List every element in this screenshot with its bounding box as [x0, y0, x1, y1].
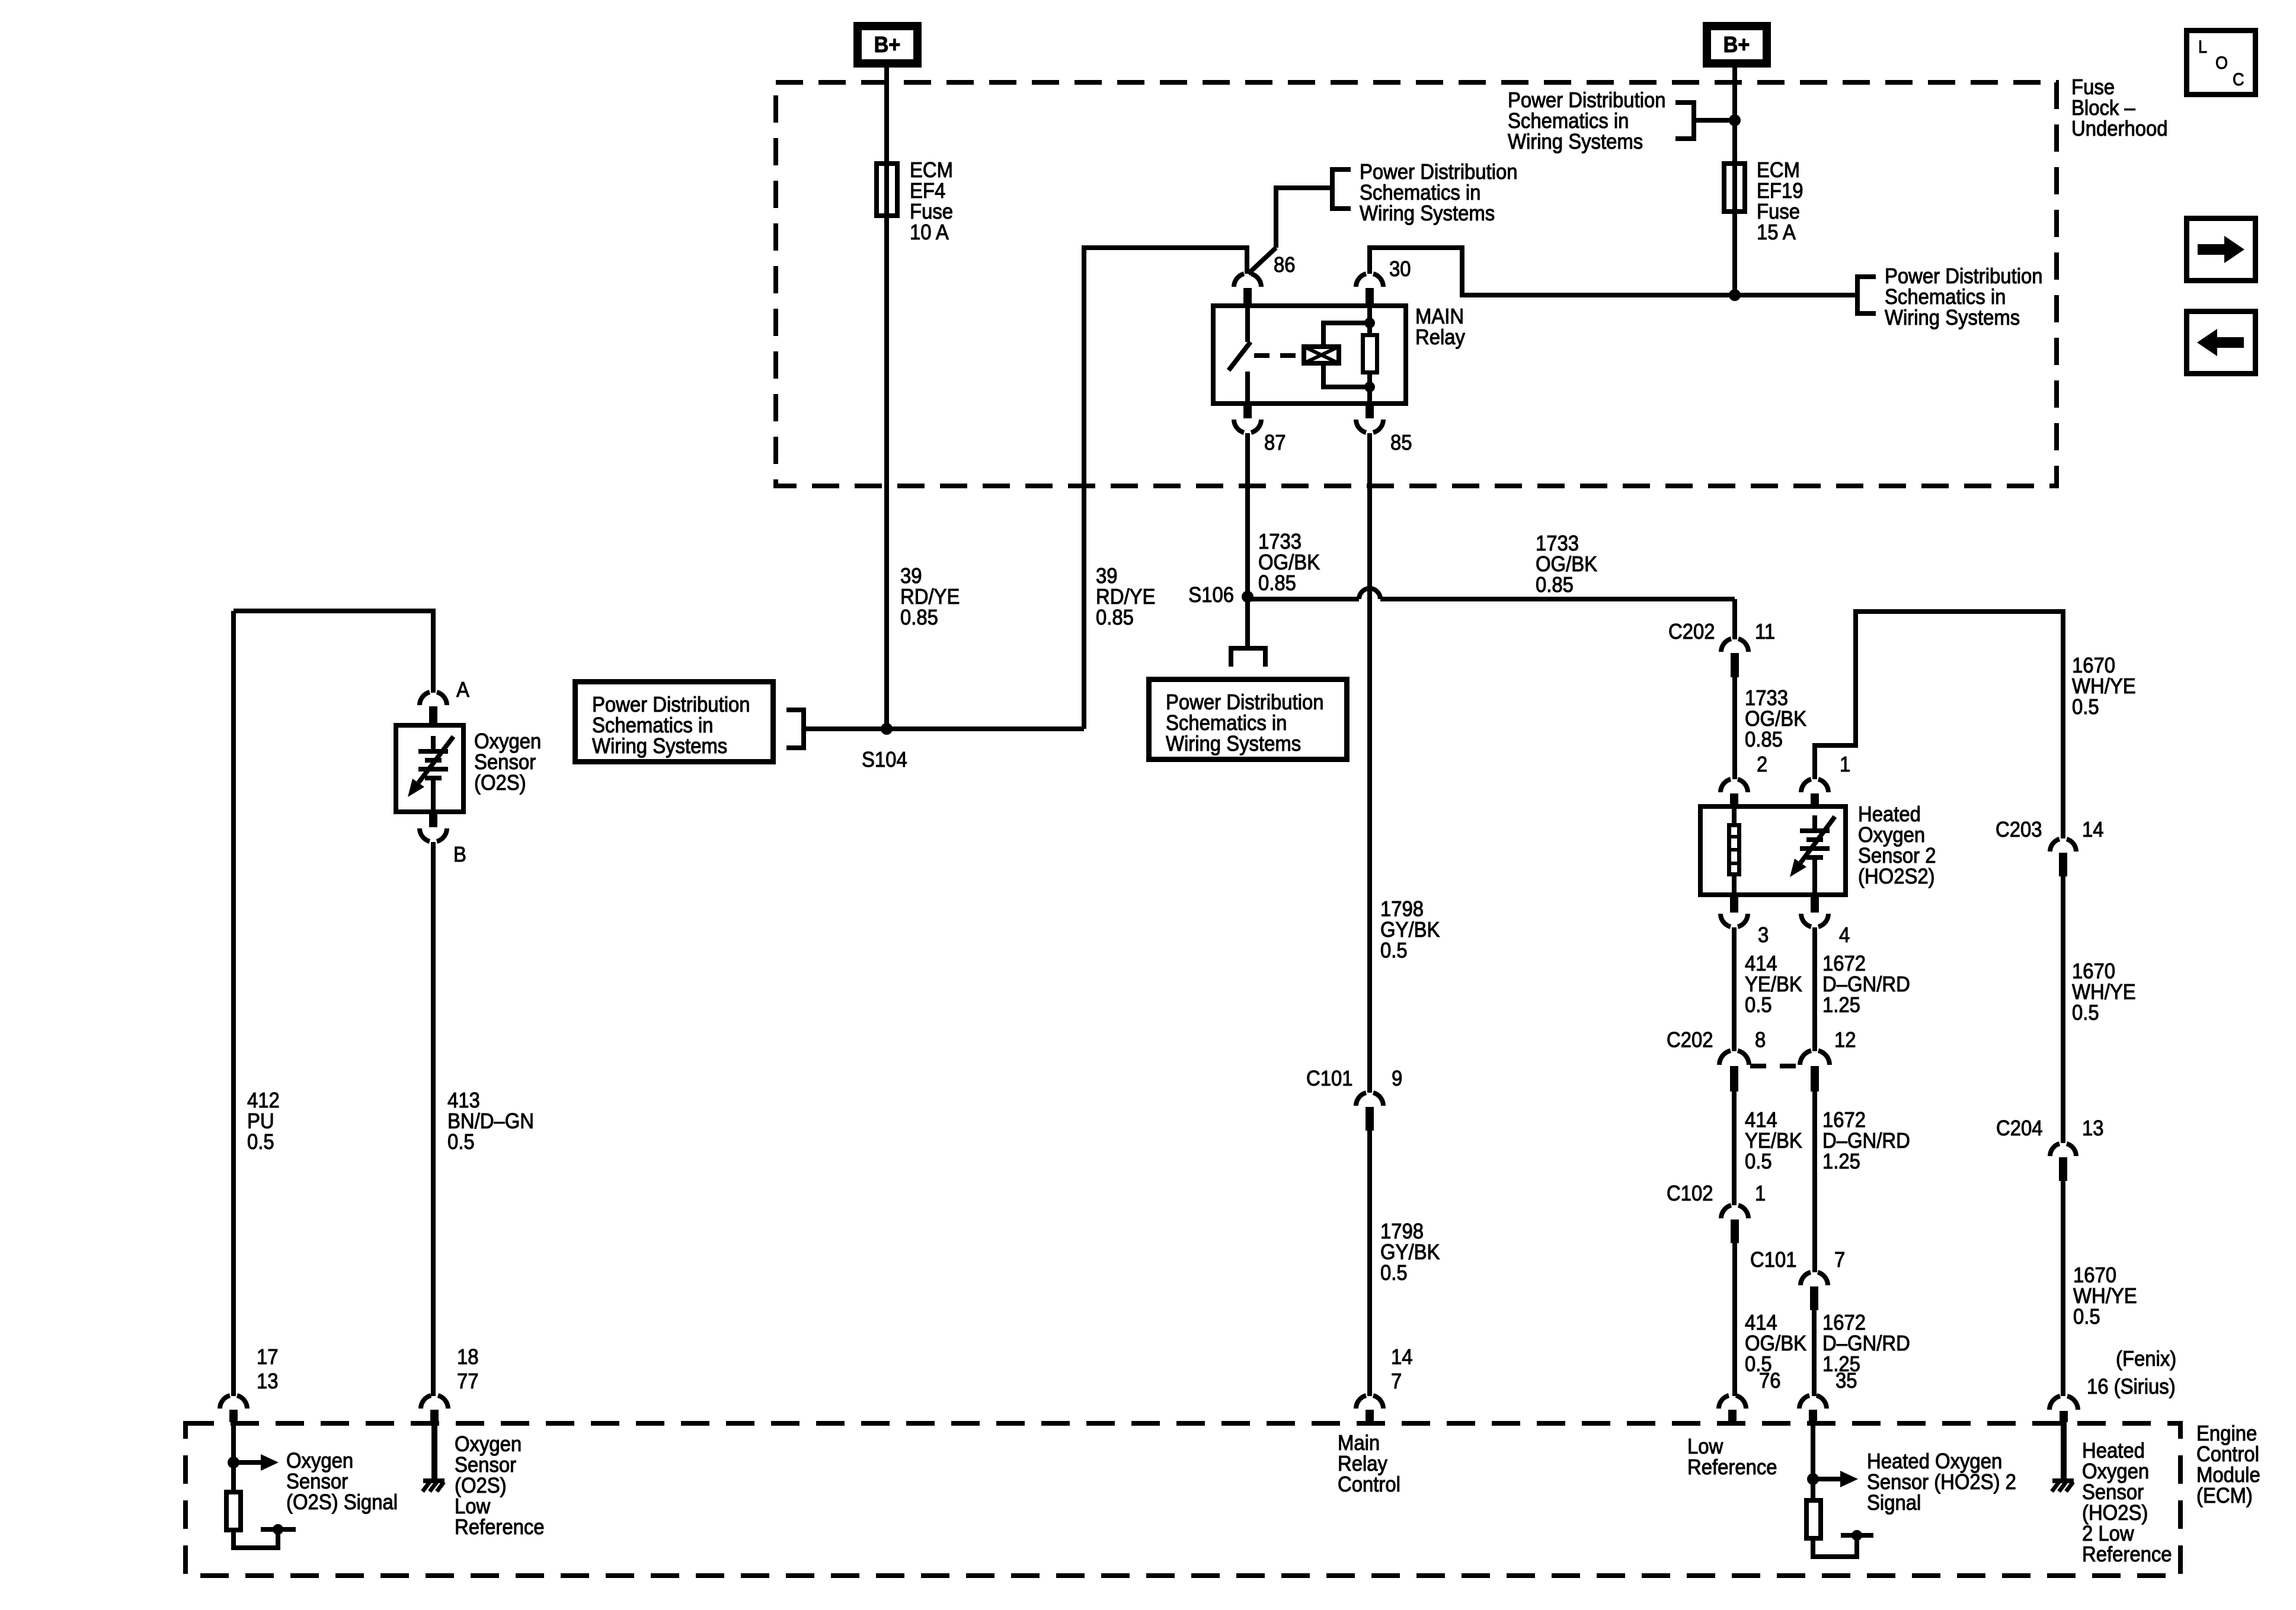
wire junction to power distribution bracket (top right) — [1694, 118, 1735, 123]
wire relay pin 30 to EF19 junction — [1370, 248, 1731, 295]
relay switch contact — [1245, 306, 1250, 342]
svg-text:13: 13 — [257, 1369, 279, 1393]
bracket to power distribution schematics (mid) — [1330, 167, 1335, 211]
svg-text:S104: S104 — [862, 748, 907, 772]
svg-text:87: 87 — [1264, 431, 1286, 454]
svg-text:9: 9 — [1392, 1067, 1402, 1090]
wire HO2S2 resistor to reference bar — [1813, 1537, 1857, 1557]
svg-text:1733OG/BK0.85: 1733OG/BK0.85 — [1536, 532, 1597, 597]
svg-text:C202: C202 — [1668, 620, 1715, 644]
bracket to power distribution schematics (right) — [1855, 274, 1860, 316]
relay connector pin 86 — [1234, 274, 1244, 287]
wire 1733 pin 87 to splice S106 — [1245, 433, 1250, 597]
connector C204 pin 13 — [2050, 1144, 2060, 1156]
connector HO2S2 pin 3 — [1730, 897, 1738, 913]
svg-text:B: B — [453, 843, 466, 866]
svg-text:8: 8 — [1755, 1028, 1766, 1052]
wire 412 top rail down — [231, 611, 236, 1396]
power terminal B+ (right) — [1707, 26, 1767, 63]
wire 414 C102 to ECM pin 76 — [1732, 1243, 1737, 1396]
arrow right legend box — [2187, 219, 2256, 281]
svg-text:ECMEF19Fuse15 A: ECMEF19Fuse15 A — [1757, 158, 1803, 244]
fuse block underhood boundary (dashed) — [776, 82, 2057, 486]
wire coil bottom to pin 85 node — [1323, 366, 1370, 387]
svg-text:B+: B+ — [1723, 31, 1750, 57]
heated oxygen sensor 2 box — [1700, 806, 1846, 895]
svg-text:1670WH/YE0.5: 1670WH/YE0.5 — [2073, 1263, 2137, 1329]
power distribution schematics label box (mid) — [1149, 680, 1347, 760]
svg-text:39RD/YE0.85: 39RD/YE0.85 — [900, 564, 960, 629]
connector HO2S2 pin 4 — [1811, 897, 1819, 913]
fuse EF19 — [1724, 164, 1745, 212]
arrow O2S signal — [234, 1460, 261, 1465]
svg-text:16 (Sirius): 16 (Sirius) — [2087, 1375, 2176, 1398]
connector C102 pin 1 — [1721, 1205, 1731, 1218]
wire diagonal into pin 86 from schematics link — [1248, 248, 1276, 274]
svg-text:LowReference: LowReference — [1687, 1435, 1777, 1479]
wire 1672 C101 to ECM pin 35 — [1812, 1310, 1817, 1396]
connector C101 pin 7 — [1801, 1272, 1811, 1285]
ECM connector pin 76 — [1719, 1395, 1729, 1409]
ECM connector pin 18/77 — [421, 1395, 431, 1409]
wire 1733 S106 to C202 pin 11 (with crossover hump) — [1248, 597, 1359, 601]
connector C203 pin 14 — [2050, 839, 2060, 852]
svg-text:C204: C204 — [1996, 1116, 2043, 1140]
reference bar (O2S) — [261, 1527, 296, 1532]
oxygen sensor element — [431, 736, 436, 751]
svg-text:1798GY/BK0.5: 1798GY/BK0.5 — [1380, 1219, 1440, 1285]
wire B+ to fuse EF4 — [884, 68, 889, 161]
wire 39 RD/YE fuse EF4 to splice S104 — [884, 218, 889, 729]
ECM input resistor (O2S) — [226, 1492, 241, 1530]
svg-text:HeatedOxygenSensor 2(HO2S2): HeatedOxygenSensor 2(HO2S2) — [1858, 802, 1936, 888]
wire coil top to pin 30 node — [1323, 323, 1370, 344]
svg-text:412PU0.5: 412PU0.5 — [247, 1089, 280, 1154]
relay connector pin 87 — [1243, 404, 1252, 418]
splice S104 — [881, 723, 893, 735]
ECM input resistor (HO2S2) — [1806, 1500, 1821, 1538]
HO2S2 sensor element — [1812, 815, 1817, 831]
svg-text:O: O — [2215, 53, 2228, 73]
wire HO2S2 signal input — [1811, 1422, 1815, 1498]
svg-text:EngineControlModule(ECM): EngineControlModule(ECM) — [2196, 1422, 2260, 1507]
svg-text:17: 17 — [257, 1345, 279, 1369]
svg-text:(Fenix): (Fenix) — [2116, 1347, 2176, 1371]
connector C202 pin 11 — [1721, 639, 1731, 652]
svg-text:414YE/BK0.5: 414YE/BK0.5 — [1745, 952, 1802, 1017]
svg-text:2: 2 — [1757, 753, 1767, 776]
connector C202 pin 12 — [1800, 1051, 1811, 1065]
svg-text:1670WH/YE0.5: 1670WH/YE0.5 — [2072, 959, 2136, 1025]
svg-text:1672D–GN/RD1.25: 1672D–GN/RD1.25 — [1822, 1108, 1910, 1173]
power distribution schematics label box (left) — [575, 682, 773, 762]
svg-text:B+: B+ — [874, 31, 901, 57]
svg-text:C: C — [2233, 70, 2244, 90]
engine control module boundary (dashed) — [186, 1423, 2180, 1576]
svg-text:L: L — [2198, 37, 2207, 57]
svg-text:39RD/YE0.85: 39RD/YE0.85 — [1096, 564, 1155, 629]
ECM connector pin 16 — [2049, 1396, 2060, 1410]
wire junction to power distribution bracket (right) — [1735, 293, 1857, 297]
svg-text:12: 12 — [1834, 1028, 1856, 1052]
svg-text:Power DistributionSchematics i: Power DistributionSchematics inWiring Sy… — [1885, 264, 2043, 329]
relay MAIN Relay box — [1213, 306, 1406, 404]
bracket from label box (left) — [801, 708, 806, 750]
svg-text:C203: C203 — [1996, 818, 2042, 841]
fuse EF4 — [877, 164, 897, 216]
wire 1672 C202 to C101 — [1812, 1092, 1817, 1272]
svg-text:ECMEF4Fuse10 A: ECMEF4Fuse10 A — [910, 158, 953, 244]
reference bar (HO2S2) — [1841, 1533, 1873, 1538]
svg-text:1733OG/BK0.85: 1733OG/BK0.85 — [1745, 686, 1806, 751]
svg-text:30: 30 — [1389, 257, 1411, 281]
junction node EF19/relay-30 feed — [1729, 289, 1741, 301]
wire 1670 C204 to ECM pin 16 — [2061, 1181, 2065, 1396]
svg-text:7: 7 — [1391, 1369, 1402, 1393]
svg-text:C101: C101 — [1306, 1067, 1353, 1090]
svg-text:86: 86 — [1274, 253, 1296, 277]
wire 414 C202 to C102 — [1732, 1092, 1737, 1205]
svg-text:MainRelayControl: MainRelayControl — [1338, 1431, 1400, 1496]
svg-text:OxygenSensor(O2S): OxygenSensor(O2S) — [474, 729, 541, 795]
svg-text:11: 11 — [1755, 620, 1775, 644]
svg-text:414OG/BK0.5: 414OG/BK0.5 — [1745, 1311, 1806, 1376]
wire 1798 C101 to ECM pin 14 — [1367, 1131, 1372, 1396]
junction reference bar (O2S) — [273, 1524, 283, 1535]
svg-text:1: 1 — [1840, 753, 1850, 776]
connector HO2S2 pin 1 — [1801, 779, 1811, 792]
svg-text:Power DistributionSchematics i: Power DistributionSchematics inWiring Sy… — [1360, 160, 1518, 225]
junction reference bar (HO2S2) — [1851, 1530, 1862, 1541]
connector C101 pin 9 — [1356, 1093, 1366, 1106]
wire fuse EF19 to junction — [1732, 214, 1737, 295]
svg-text:413BN/D–GN0.5: 413BN/D–GN0.5 — [447, 1089, 534, 1154]
junction O2S signal — [228, 1457, 239, 1468]
svg-text:1733OG/BK0.85: 1733OG/BK0.85 — [1258, 530, 1320, 595]
svg-text:1798GY/BK0.5: 1798GY/BK0.5 — [1380, 897, 1440, 962]
svg-text:7: 7 — [1834, 1248, 1845, 1272]
dashed connector link C202 — [1750, 1064, 1799, 1068]
svg-text:OxygenSensor(O2S)LowReference: OxygenSensor(O2S)LowReference — [455, 1432, 545, 1539]
LOC legend box — [2187, 31, 2256, 95]
relay coil element — [1304, 347, 1339, 363]
wire top rail to oxygen sensor — [234, 611, 433, 693]
wire 1670 HO2S2 pin 1 riser — [1815, 612, 2063, 838]
arrow HO2S2 signal — [1813, 1477, 1840, 1481]
wire 413 pin B to ECM pin 18 — [431, 842, 436, 1396]
ECM connector pin 17/13 — [220, 1395, 230, 1409]
svg-text:1: 1 — [1755, 1182, 1766, 1205]
svg-text:Power DistributionSchematics i: Power DistributionSchematics inWiring Sy… — [1166, 690, 1324, 756]
ECM connector pin 35 — [1799, 1395, 1809, 1409]
relay connector pin 85 — [1366, 404, 1374, 418]
svg-text:Heated OxygenSensor (HO2S) 2Si: Heated OxygenSensor (HO2S) 2Signal — [1867, 1449, 2016, 1515]
wire 1670 C203 to C204 — [2061, 876, 2065, 1143]
svg-text:414YE/BK0.5: 414YE/BK0.5 — [1745, 1108, 1802, 1173]
connector HO2S2 pin 2 — [1721, 779, 1731, 792]
svg-text:1670WH/YE0.5: 1670WH/YE0.5 — [2072, 654, 2136, 719]
bracket to power distribution schematics (top) — [1691, 100, 1696, 141]
svg-text:85: 85 — [1390, 431, 1412, 454]
svg-text:13: 13 — [2082, 1116, 2104, 1140]
svg-text:14: 14 — [2082, 818, 2104, 841]
bracket below S106 — [1229, 646, 1268, 651]
wire S104 to relay pin 86 — [804, 726, 1084, 731]
relay internal resistor — [1367, 306, 1372, 333]
svg-text:77: 77 — [457, 1369, 479, 1393]
svg-text:HeatedOxygenSensor(HO2S)2 LowR: HeatedOxygenSensor(HO2S)2 LowReference — [2082, 1439, 2172, 1566]
ground HO2S2 low reference — [2061, 1422, 2067, 1480]
junction coil top — [1364, 318, 1375, 328]
svg-text:C202: C202 — [1667, 1028, 1713, 1052]
svg-text:Power DistributionSchematics i: Power DistributionSchematics inWiring Sy… — [592, 693, 750, 758]
connector pin B — [429, 814, 437, 827]
svg-text:Power DistributionSchematics i: Power DistributionSchematics inWiring Sy… — [1508, 88, 1666, 153]
svg-text:4: 4 — [1839, 923, 1850, 947]
svg-text:S106: S106 — [1188, 583, 1234, 607]
wire 1672 pin 4 to C202 pin 12 — [1812, 927, 1817, 1051]
wire O2S resistor to reference bar — [234, 1531, 278, 1548]
svg-text:1672D–GN/RD1.25: 1672D–GN/RD1.25 — [1822, 952, 1910, 1017]
wire 1733 C202 to HO2S2 pin 2 — [1732, 677, 1737, 779]
wire S106 to schematics bracket (down) — [1245, 597, 1250, 648]
wire B+ right to fuse EF19 — [1732, 68, 1737, 161]
HO2S2 heater element — [1732, 804, 1737, 823]
power terminal B+ (left) — [858, 26, 917, 63]
junction HO2S2 signal — [1807, 1473, 1819, 1485]
svg-text:FuseBlock –Underhood: FuseBlock –Underhood — [2071, 75, 2168, 140]
relay actuation dashed link — [1254, 353, 1297, 358]
wire 414 pin 3 to C202 pin 8 — [1732, 927, 1737, 1051]
wire O2S signal input — [231, 1422, 236, 1490]
junction coil bottom — [1364, 382, 1375, 392]
connector C202 pin 8 — [1719, 1051, 1731, 1065]
ECM connector pin 14/7 — [1356, 1395, 1366, 1409]
wire 1798 pin 85 to C101 pin 9 — [1367, 433, 1372, 1093]
svg-text:76: 76 — [1759, 1369, 1781, 1393]
splice S106 — [1242, 591, 1253, 603]
svg-text:A: A — [456, 678, 470, 702]
svg-text:1672D–GN/RD1.25: 1672D–GN/RD1.25 — [1822, 1311, 1910, 1376]
svg-text:C101: C101 — [1750, 1248, 1797, 1272]
junction node on B+ feed — [1729, 114, 1741, 126]
ground O2S low reference — [431, 1422, 437, 1480]
svg-text:OxygenSensor(O2S) Signal: OxygenSensor(O2S) Signal — [286, 1449, 398, 1514]
connector pin A — [420, 692, 430, 705]
svg-text:3: 3 — [1758, 923, 1769, 947]
svg-text:MAINRelay: MAINRelay — [1415, 305, 1466, 349]
relay connector pin 30 — [1356, 274, 1366, 287]
svg-text:35: 35 — [1835, 1369, 1857, 1393]
svg-text:14: 14 — [1391, 1345, 1413, 1369]
svg-text:18: 18 — [457, 1345, 479, 1369]
arrow left legend box — [2187, 312, 2256, 374]
svg-text:C102: C102 — [1667, 1182, 1713, 1205]
oxygen sensor O2S box — [396, 725, 463, 812]
